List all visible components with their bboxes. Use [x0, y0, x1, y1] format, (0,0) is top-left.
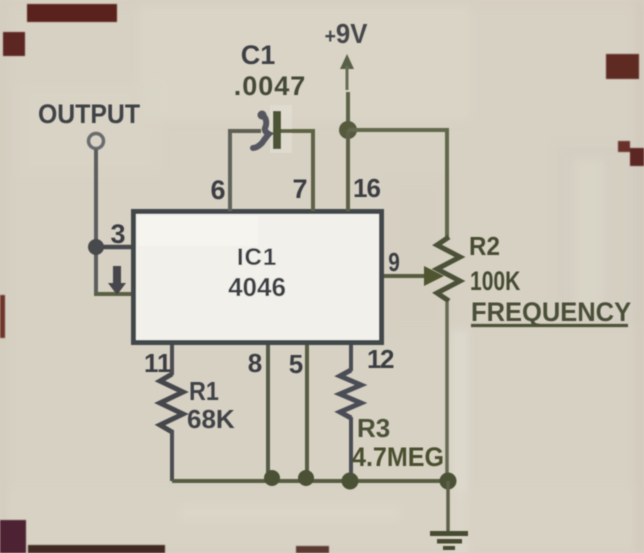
wire pin 11 upper — [170, 345, 174, 375]
wire pin 12 upper — [349, 345, 353, 371]
scan artifact maroon block top-left — [27, 4, 117, 22]
svg-text:11: 11 — [144, 348, 172, 378]
svg-text:FREQUENCY: FREQUENCY — [471, 296, 632, 327]
pin 3 label — [110, 219, 125, 249]
node junction pin5 — [298, 470, 314, 486]
node junction supply — [339, 121, 357, 139]
svg-text:.0047: .0047 — [234, 71, 307, 101]
wire pin 7 — [311, 131, 315, 211]
wire pin 5 — [305, 345, 309, 478]
pin 5 label — [289, 349, 303, 379]
scan artifact dark strip bottom — [28, 545, 165, 553]
node junction pin3 — [88, 239, 104, 255]
terminal OUTPUT circle — [89, 134, 104, 149]
svg-text:5: 5 — [289, 349, 303, 379]
scan artifact maroon streak left edge — [0, 295, 5, 338]
pin 12 label — [367, 344, 394, 374]
svg-text:OUTPUT: OUTPUT — [38, 100, 140, 129]
scan artifact maroon block left upper — [3, 32, 25, 56]
pin 8 label — [248, 348, 262, 378]
wire pin 11 lower — [170, 430, 174, 481]
scan artifact maroon block right upper — [606, 54, 639, 79]
pin 9 label — [388, 248, 400, 277]
svg-text:100K: 100K — [470, 267, 521, 297]
pin 7 label — [292, 174, 307, 204]
label OUTPUT — [38, 100, 140, 129]
svg-text:6: 6 — [210, 175, 225, 205]
label 100K — [470, 267, 521, 297]
svg-text:IC1: IC1 — [237, 244, 277, 271]
power arrow up — [340, 54, 354, 90]
pin 4 label (arrow-like glyph) — [108, 266, 126, 295]
wire ground bus — [172, 479, 448, 483]
svg-text:7: 7 — [292, 174, 307, 204]
node junction pin12 — [342, 473, 359, 490]
wire pin 16 — [346, 130, 350, 211]
svg-text:16: 16 — [353, 173, 380, 203]
wire R2 lower — [445, 302, 449, 478]
pin 16 label — [353, 173, 380, 203]
svg-text:C1: C1 — [241, 40, 276, 70]
svg-text:4046: 4046 — [228, 272, 286, 302]
wire output vertical — [94, 149, 98, 294]
wire pin 6 — [228, 131, 232, 211]
label R2 — [469, 232, 500, 261]
svg-text:68K: 68K — [187, 404, 235, 434]
wire cap loop right — [281, 129, 315, 133]
underline FREQUENCY — [471, 324, 628, 327]
svg-text:3: 3 — [110, 219, 125, 249]
label R1 — [189, 378, 219, 406]
label 68K — [187, 404, 235, 434]
wire cap loop left — [228, 129, 261, 133]
svg-text:9: 9 — [388, 248, 400, 277]
4046 label — [228, 272, 286, 302]
capacitor C1 symbol straight plate — [273, 111, 281, 149]
pin 9 wiper arrow — [424, 266, 444, 286]
wire pin 9 — [384, 274, 424, 278]
svg-text:4.7MEG: 4.7MEG — [352, 441, 444, 472]
wire pin 4 elbow — [94, 292, 133, 296]
potentiometer R2 zigzag — [437, 237, 460, 301]
label FREQUENCY — [471, 296, 632, 327]
label C1 — [241, 40, 276, 70]
capacitor C1 symbol curved plate — [253, 111, 269, 149]
wire supply vertical — [346, 92, 350, 130]
scan artifact maroon marks right middle — [618, 141, 644, 166]
label +9V — [325, 18, 368, 49]
resistor R1 zigzag — [160, 374, 183, 432]
svg-text:R1: R1 — [189, 378, 219, 406]
pin 11 label — [144, 348, 172, 378]
pin 6 label — [210, 175, 225, 205]
wire supply to R2 — [348, 130, 447, 240]
wire ground stem — [446, 481, 450, 531]
svg-text:8: 8 — [248, 348, 262, 378]
svg-text:R3: R3 — [357, 413, 390, 443]
op IC1 box — [134, 212, 382, 343]
wire pin 12 lower — [349, 417, 353, 481]
node junction pin8 — [264, 470, 280, 486]
capacitor C1 area light halo — [270, 105, 292, 153]
wire pin 8 — [266, 345, 270, 478]
resistor R3 zigzag — [340, 370, 361, 418]
label .0047 — [234, 71, 307, 101]
scan artifact dark mark bottom center — [296, 546, 329, 553]
wire pin 3 — [96, 245, 133, 250]
svg-text:R2: R2 — [469, 232, 500, 261]
label 4.7MEG — [352, 441, 444, 472]
node junction R2/ground — [440, 473, 457, 490]
label R3 — [357, 413, 390, 443]
ground symbol — [430, 531, 468, 550]
IC1 label — [237, 244, 277, 271]
svg-text:12: 12 — [367, 344, 394, 374]
scan artifact maroon corner bottom-left — [0, 520, 26, 553]
